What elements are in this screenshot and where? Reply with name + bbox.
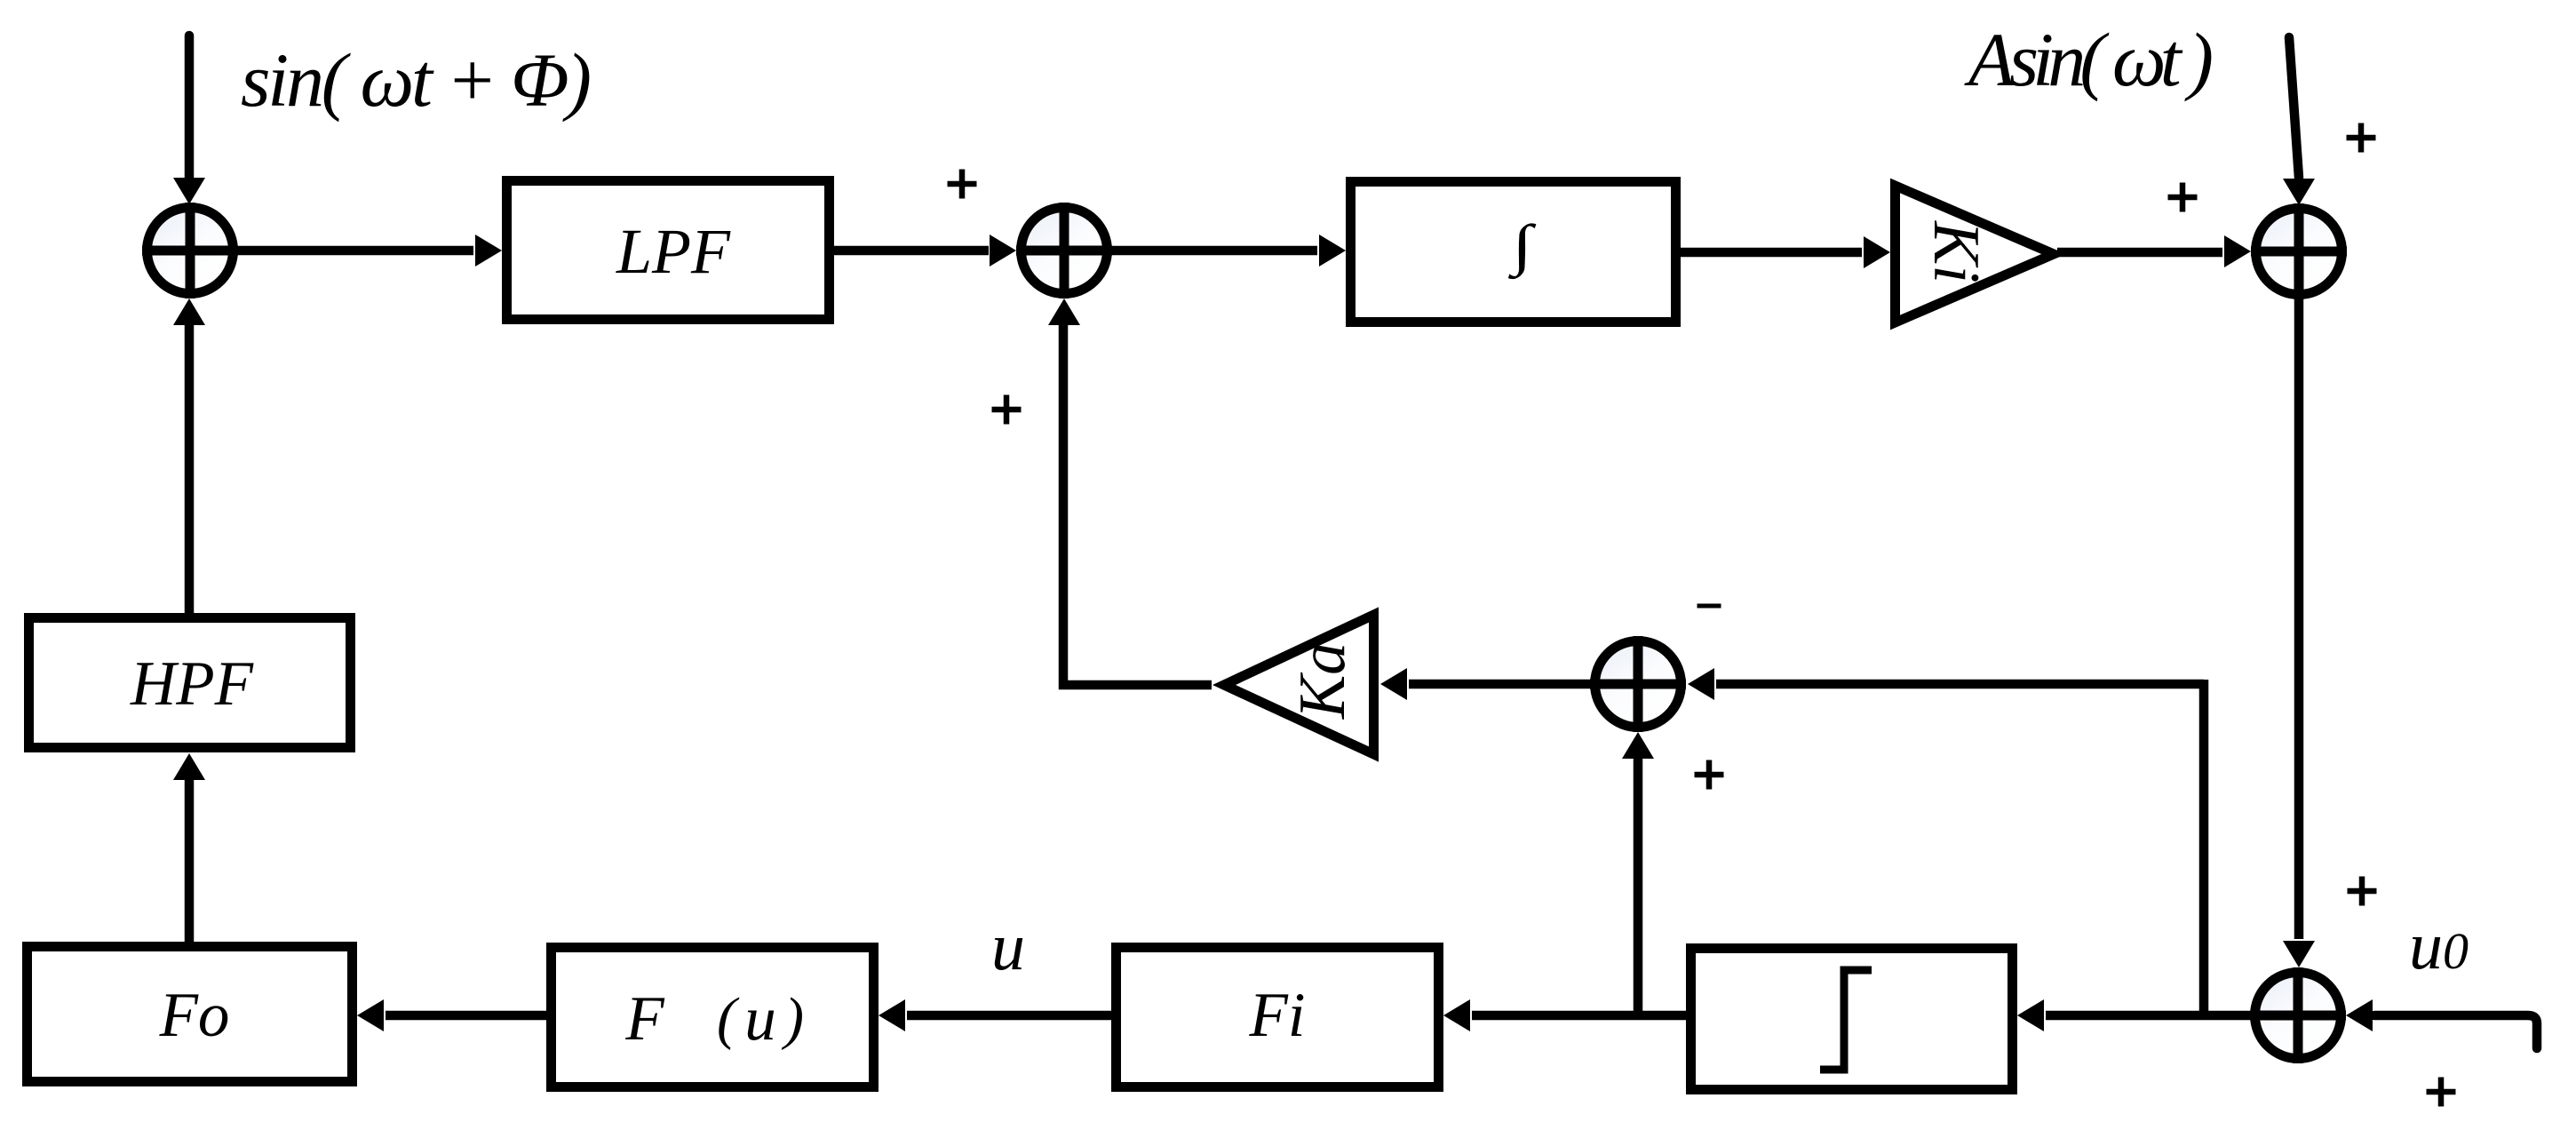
wire Fo to HPF <box>185 778 195 942</box>
arrowhead into S5 top <box>2283 941 2315 967</box>
wire sin input <box>185 36 195 181</box>
arrowhead into Fi <box>1443 999 1470 1031</box>
wire branch up to S4 right <box>2199 680 2209 1015</box>
svg-text:sin( ωt + Φ): sin( ωt + Φ) <box>241 37 592 123</box>
plus sign S4 bottom input <box>1695 772 1724 778</box>
block LPF <box>507 181 830 320</box>
block Fi <box>1117 948 1439 1087</box>
block Fu <box>552 948 874 1087</box>
wire integrator to Ki <box>1681 248 1862 258</box>
arrowhead into S5 right <box>2346 999 2373 1031</box>
sum S3 (output adder) <box>2256 209 2342 295</box>
plus sign S2 left input <box>948 181 977 187</box>
plus sign S5 right input <box>2427 1089 2456 1095</box>
arrowhead into integrator <box>1319 235 1346 267</box>
wire u0 input <box>2374 1015 2537 1048</box>
block limiter <box>1691 949 2013 1090</box>
sum S2 <box>1022 208 1108 294</box>
svg-text:Fi: Fi <box>1248 981 1305 1050</box>
svg-text:): ) <box>781 986 804 1051</box>
svg-text:Ka: Ka <box>1286 642 1359 720</box>
minus sign S4 right input <box>1697 604 1721 609</box>
wire Asin input <box>2289 37 2299 178</box>
wire Fi to Fu <box>907 1011 1111 1021</box>
arrowhead into Fo <box>357 999 384 1031</box>
sum S4 (amplitude error) <box>1595 641 1682 728</box>
wire Ki to S3 <box>2057 248 2222 258</box>
arrowhead into S4 right <box>1688 668 1714 700</box>
wire S2 to integrator <box>1112 246 1317 256</box>
wire S1 to LPF <box>238 246 473 256</box>
svg-text:u: u <box>744 984 776 1054</box>
wire HPF to S1 <box>185 323 195 613</box>
arrowhead into S3 top <box>2283 179 2315 205</box>
svg-text:HPF: HPF <box>130 649 254 719</box>
wire S3 down to S5 <box>2294 299 2304 939</box>
wire Fu to Fo <box>386 1011 546 1021</box>
amplifier Ka triangle <box>1224 615 1374 754</box>
sum S5 (u0 adder) <box>2255 973 2341 1059</box>
wire branch up to S4 bottom <box>1634 757 1643 1015</box>
wire S5 to limiter <box>2046 1011 2250 1021</box>
arrowhead into HPF <box>173 753 205 780</box>
arrowhead into S1 bottom <box>173 298 205 325</box>
svg-text:Asin( ωt ): Asin( ωt ) <box>1964 17 2214 102</box>
symbol step nonlinearity <box>1820 970 1872 1070</box>
plus sign S5 top input <box>2348 888 2377 895</box>
arrowhead into Ki <box>1864 236 1890 268</box>
svg-text:Fo: Fo <box>159 981 230 1050</box>
amplifier Ki triangle <box>1896 186 2055 322</box>
svg-text:LPF: LPF <box>616 216 731 287</box>
arrowhead into Fu <box>879 999 905 1031</box>
arrowhead into S3 left <box>2224 235 2251 267</box>
wire Ka to S2 bottom <box>1063 323 1212 685</box>
plus sign S3 top input <box>2347 135 2376 141</box>
svg-text:F: F <box>624 984 664 1054</box>
arrowhead into LPF <box>475 235 502 267</box>
svg-text:u: u <box>991 910 1025 984</box>
block integrator <box>1351 182 1676 322</box>
svg-text:Ki: Ki <box>1920 220 1992 283</box>
wire LPF to S2 <box>834 246 989 256</box>
arrowhead into S2 bottom <box>1048 298 1080 325</box>
wire limiter to Fi <box>1472 1011 1686 1021</box>
sum S1 (phase detector input) <box>147 208 234 294</box>
plus sign S3 left input <box>2168 195 2198 201</box>
block HPF <box>29 618 351 748</box>
arrowhead into S2 left <box>990 235 1016 267</box>
arrowhead into S1 top <box>173 178 205 204</box>
arrowhead into Ka <box>1380 668 1407 700</box>
block Fo <box>28 947 353 1082</box>
plus sign S2 bottom input <box>992 407 1022 413</box>
arrowhead into limiter <box>2017 999 2044 1031</box>
wire S4 to Ka <box>1409 680 1590 689</box>
arrowhead into S4 bottom <box>1622 732 1654 759</box>
